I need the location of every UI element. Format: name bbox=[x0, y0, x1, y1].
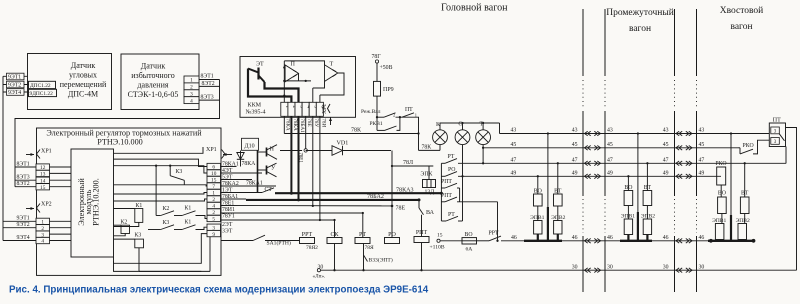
svg-text:43: 43 bbox=[572, 128, 578, 134]
svg-text:РРТ: РРТ bbox=[302, 232, 313, 238]
svg-text:РПТ: РПТ bbox=[441, 193, 452, 199]
svg-text:РКВ1: РКВ1 bbox=[370, 121, 383, 127]
svg-text:78К: 78К bbox=[422, 145, 432, 151]
svg-text:2: 2 bbox=[393, 112, 395, 117]
svg-text:78Е: 78Е bbox=[396, 205, 406, 211]
svg-text:перемещений: перемещений bbox=[60, 80, 107, 89]
svg-text:8ЭТ2: 8ЭТ2 bbox=[17, 181, 30, 187]
svg-text:К3: К3 bbox=[135, 232, 142, 238]
svg-text:6А: 6А bbox=[466, 247, 473, 253]
svg-text:РПТ: РПТ bbox=[441, 179, 452, 185]
svg-text:30: 30 bbox=[318, 264, 324, 270]
svg-text:СТЭК-1-0,6-05: СТЭК-1-0,6-05 bbox=[128, 90, 179, 99]
svg-text:78Я: 78Я bbox=[365, 245, 375, 251]
svg-text:30: 30 bbox=[663, 264, 669, 270]
svg-text:4: 4 bbox=[190, 98, 193, 104]
svg-text:9ЭТ4: 9ЭТ4 bbox=[17, 235, 30, 241]
svg-text:Т: Т bbox=[480, 122, 484, 128]
svg-text:В33(ЭПТ): В33(ЭПТ) bbox=[369, 257, 393, 264]
svg-text:Реж.Вал: Реж.Вал bbox=[361, 109, 381, 115]
svg-text:46: 46 bbox=[699, 235, 705, 241]
svg-text:ВО: ВО bbox=[718, 191, 726, 197]
svg-text:ДПС-4М: ДПС-4М bbox=[68, 90, 98, 99]
svg-text:8ЭТ3: 8ЭТ3 bbox=[201, 95, 214, 101]
svg-text:Промежуточный: Промежуточный bbox=[606, 7, 674, 18]
svg-text:47: 47 bbox=[663, 157, 669, 163]
svg-text:49: 49 bbox=[663, 170, 669, 176]
svg-text:Датчик: Датчик bbox=[71, 61, 96, 70]
svg-text:15: 15 bbox=[437, 232, 443, 238]
svg-text:«Лп».: «Лп». bbox=[313, 273, 326, 279]
svg-text:Рис. 4. Принципиальная электри: Рис. 4. Принципиальная электрическая схе… bbox=[9, 284, 429, 295]
svg-text:78Я2: 78Я2 bbox=[306, 245, 318, 251]
svg-text:ХР1: ХР1 bbox=[41, 149, 52, 155]
svg-text:78И1: 78И1 bbox=[222, 207, 235, 213]
svg-text:ЭПВ2: ЭПВ2 bbox=[736, 218, 750, 224]
svg-text:78К: 78К bbox=[351, 128, 362, 134]
svg-text:2ЭТ: 2ЭТ bbox=[222, 222, 233, 228]
svg-text:РКО: РКО bbox=[715, 161, 726, 167]
svg-text:РТНЭ.10.200.: РТНЭ.10.200. bbox=[91, 178, 100, 226]
svg-text:давления: давления bbox=[137, 81, 168, 90]
svg-text:46: 46 bbox=[511, 235, 517, 241]
svg-text:VD1: VD1 bbox=[337, 141, 349, 147]
svg-text:Датчик: Датчик bbox=[141, 62, 166, 71]
svg-text:угловых: угловых bbox=[69, 71, 97, 80]
svg-text:К3: К3 bbox=[176, 169, 183, 175]
svg-text:49: 49 bbox=[511, 170, 517, 176]
svg-text:78КА3: 78КА3 bbox=[396, 187, 414, 193]
svg-text:78Е1: 78Е1 bbox=[298, 153, 303, 164]
svg-text:5: 5 bbox=[212, 217, 215, 223]
svg-text:СК: СК bbox=[330, 232, 339, 238]
svg-text:РТ: РТ bbox=[448, 212, 455, 218]
svg-text:47: 47 bbox=[572, 157, 578, 163]
svg-text:47: 47 bbox=[511, 157, 517, 163]
svg-text:9ЭТ2: 9ЭТ2 bbox=[17, 222, 30, 228]
svg-text:9ЭТ1: 9ЭТ1 bbox=[8, 75, 21, 81]
svg-text:№395-4: №395-4 bbox=[246, 110, 266, 116]
svg-text:У: У bbox=[271, 165, 276, 171]
svg-text:78И: 78И bbox=[320, 118, 326, 127]
svg-text:РО: РО bbox=[448, 167, 455, 173]
svg-text:30: 30 bbox=[607, 264, 613, 270]
svg-text:ПТ: ПТ bbox=[405, 107, 413, 113]
svg-text:К3: К3 bbox=[163, 220, 170, 226]
svg-text:78БА2: 78БА2 bbox=[367, 194, 384, 200]
svg-text:ДПС1.22: ДПС1.22 bbox=[30, 83, 51, 89]
svg-text:вагон: вагон bbox=[629, 24, 651, 34]
svg-text:Головной вагон: Головной вагон bbox=[441, 3, 508, 14]
svg-text:78КА: 78КА bbox=[242, 161, 257, 167]
svg-text:43: 43 bbox=[663, 128, 669, 134]
svg-text:46: 46 bbox=[572, 235, 578, 241]
svg-text:78Г: 78Г bbox=[372, 54, 382, 60]
svg-text:45: 45 bbox=[511, 142, 517, 148]
svg-text:9: 9 bbox=[212, 232, 215, 238]
svg-text:+110В: +110В bbox=[430, 245, 445, 251]
svg-text:8ЭТ1: 8ЭТ1 bbox=[201, 74, 214, 80]
svg-text:8ЭТ2: 8ЭТ2 bbox=[202, 81, 215, 87]
svg-text:78Е: 78Е bbox=[306, 118, 312, 126]
svg-text:78Л: 78Л bbox=[403, 160, 413, 166]
svg-text:49: 49 bbox=[607, 170, 613, 176]
svg-text:ЭПВ1: ЭПВ1 bbox=[712, 218, 726, 224]
svg-text:9ЭТ4: 9ЭТ4 bbox=[8, 90, 21, 96]
svg-text:ВО: ВО bbox=[465, 232, 473, 238]
svg-text:К2: К2 bbox=[121, 219, 128, 225]
svg-text:45: 45 bbox=[699, 142, 705, 148]
svg-text:ХР2: ХР2 bbox=[41, 202, 52, 208]
svg-text:К1: К1 bbox=[185, 219, 192, 225]
svg-text:СТ: СТ bbox=[265, 187, 273, 193]
svg-text:30: 30 bbox=[699, 264, 705, 270]
svg-text:ПР9: ПР9 bbox=[383, 87, 394, 93]
svg-text:Хвостовой: Хвостовой bbox=[720, 5, 764, 16]
svg-text:3ЭТ: 3ЭТ bbox=[222, 228, 233, 234]
svg-text:13Д: 13Д bbox=[425, 190, 435, 196]
svg-text:78БА1: 78БА1 bbox=[299, 118, 305, 133]
svg-text:8ЭТ3: 8ЭТ3 bbox=[17, 175, 30, 181]
svg-text:9ЭТ1: 9ЭТ1 bbox=[17, 216, 30, 222]
svg-text:78КА: 78КА bbox=[292, 118, 298, 131]
svg-text:43: 43 bbox=[699, 128, 705, 134]
svg-text:+50В: +50В bbox=[380, 65, 393, 71]
svg-text:Н: Н bbox=[270, 147, 275, 153]
svg-text:ВА: ВА bbox=[426, 210, 435, 216]
svg-text:49: 49 bbox=[699, 170, 705, 176]
svg-text:78У1: 78У1 bbox=[222, 213, 235, 219]
svg-text:45: 45 bbox=[663, 142, 669, 148]
svg-text:47: 47 bbox=[607, 157, 613, 163]
svg-text:О: О bbox=[458, 122, 463, 128]
svg-text:43: 43 bbox=[511, 128, 517, 134]
svg-text:РКО: РКО bbox=[743, 143, 754, 149]
svg-text:Д10: Д10 bbox=[245, 143, 255, 149]
svg-text:ЭТ: ЭТ bbox=[256, 62, 264, 68]
svg-text:ЭПВ2: ЭПВ2 bbox=[641, 214, 655, 220]
svg-text:1: 1 bbox=[415, 112, 417, 117]
svg-text:Т: Т bbox=[330, 61, 334, 67]
svg-text:15: 15 bbox=[40, 185, 46, 191]
svg-text:4: 4 bbox=[41, 239, 44, 245]
svg-text:вагон: вагон bbox=[730, 22, 752, 32]
svg-text:78КА: 78КА bbox=[285, 118, 291, 131]
svg-text:РРТ: РРТ bbox=[489, 231, 500, 237]
svg-text:SA1(РТН): SA1(РТН) bbox=[267, 240, 291, 247]
svg-text:РТНЭ.10.000: РТНЭ.10.000 bbox=[97, 137, 143, 146]
svg-text:46: 46 bbox=[607, 235, 613, 241]
svg-text:49: 49 bbox=[572, 170, 578, 176]
svg-text:ЭПК: ЭПК bbox=[421, 172, 433, 178]
svg-text:9ЭТ2: 9ЭТ2 bbox=[8, 83, 21, 89]
svg-text:ПТ: ПТ bbox=[773, 117, 781, 123]
svg-text:8ЭТ1: 8ЭТ1 bbox=[17, 161, 30, 167]
svg-text:избыточного: избыточного bbox=[131, 71, 174, 80]
svg-text:45: 45 bbox=[572, 142, 578, 148]
svg-text:30: 30 bbox=[572, 264, 578, 270]
svg-text:РТ: РТ bbox=[448, 154, 455, 160]
svg-text:45: 45 bbox=[607, 142, 613, 148]
svg-text:ЭПВ2: ЭПВ2 bbox=[551, 215, 565, 221]
svg-text:РО: РО bbox=[388, 232, 396, 238]
svg-text:П: П bbox=[291, 61, 296, 67]
svg-text:К1: К1 bbox=[185, 205, 192, 211]
svg-text:ХР1: ХР1 bbox=[322, 104, 328, 114]
svg-text:78У: 78У bbox=[313, 118, 319, 127]
svg-text:43: 43 bbox=[607, 128, 613, 134]
svg-text:78КА1: 78КА1 bbox=[246, 180, 263, 186]
svg-text:К2: К2 bbox=[163, 206, 170, 212]
svg-text:ХР1: ХР1 bbox=[206, 147, 217, 153]
svg-text:ККМ: ККМ bbox=[248, 102, 262, 108]
svg-text:9ДПС1.22: 9ДПС1.22 bbox=[30, 91, 54, 97]
svg-text:46: 46 bbox=[663, 235, 669, 241]
svg-text:47: 47 bbox=[699, 157, 705, 163]
svg-text:РТ: РТ bbox=[359, 232, 366, 238]
svg-text:Электронный регулятор тормозны: Электронный регулятор тормозных нажатий bbox=[46, 128, 202, 137]
